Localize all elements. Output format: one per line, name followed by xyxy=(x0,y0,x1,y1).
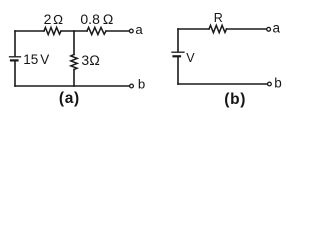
resistor R1 xyxy=(44,27,61,34)
resistor R xyxy=(209,25,227,32)
battery V short plate xyxy=(174,55,181,57)
wire: circuit (b) left top segment xyxy=(177,29,179,51)
svg-text:a: a xyxy=(135,22,143,37)
battery B1 long plate xyxy=(10,56,21,58)
terminal b (a-circuit) xyxy=(130,84,134,88)
svg-text:b: b xyxy=(138,77,145,92)
battery V long plate xyxy=(172,51,184,53)
battery B1 short plate xyxy=(11,59,18,61)
svg-text:V: V xyxy=(40,52,49,67)
svg-text:2: 2 xyxy=(44,11,52,27)
svg-text:a: a xyxy=(273,21,281,36)
svg-text:b: b xyxy=(274,75,282,90)
svg-text:Ω: Ω xyxy=(53,12,63,27)
wire: R3 to bottom xyxy=(73,70,75,87)
resistor R3 xyxy=(71,55,77,70)
wire: circuit (b) bottom segment xyxy=(178,83,267,85)
svg-text:(b): (b) xyxy=(224,91,246,108)
svg-text:(a): (a) xyxy=(59,90,80,107)
wire: battery to bottom-left corner xyxy=(14,62,16,86)
label 2Ω xyxy=(44,11,64,27)
wire: circuit (a) left top segment xyxy=(14,31,16,56)
terminal a (b-circuit) xyxy=(267,27,271,31)
wire: R2 to terminal a xyxy=(106,30,129,32)
label 15V xyxy=(23,52,49,67)
svg-text:0.8 Ω: 0.8 Ω xyxy=(80,11,113,27)
wire: circuit (a) top-left segment xyxy=(15,30,44,32)
wire: R1 to node xyxy=(61,30,87,32)
svg-text:V: V xyxy=(186,51,195,65)
wire: node to R3 xyxy=(73,31,75,55)
wire: circuit (b) top segment xyxy=(178,28,209,30)
terminal a (a-circuit) xyxy=(129,29,133,33)
svg-text:3Ω: 3Ω xyxy=(81,52,100,68)
wire: circuit (a) bottom segment xyxy=(15,85,130,87)
svg-text:R: R xyxy=(214,11,223,25)
terminal b (b-circuit) xyxy=(268,82,272,86)
svg-text:15: 15 xyxy=(23,52,38,67)
wire: battery V to bottom-left corner xyxy=(177,58,179,84)
wire: R to terminal a xyxy=(227,28,267,30)
resistor R2 xyxy=(87,27,106,34)
